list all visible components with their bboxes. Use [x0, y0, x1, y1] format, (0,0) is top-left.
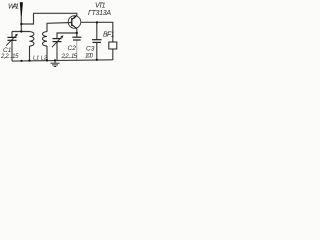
- svg-text:C3: C3: [86, 45, 95, 52]
- svg-text:ГТ313А: ГТ313А: [88, 10, 111, 17]
- svg-text:WA1: WA1: [8, 3, 19, 10]
- svg-text:2,2...15: 2,2...15: [0, 54, 19, 60]
- svg-text:VT1: VT1: [95, 3, 106, 10]
- svg-text:C1: C1: [3, 47, 12, 54]
- svg-text:2,2...15: 2,2...15: [61, 54, 78, 60]
- svg-text:100: 100: [85, 54, 94, 60]
- svg-text:BF1: BF1: [103, 32, 115, 39]
- svg-text:C2: C2: [68, 45, 77, 52]
- svg-text:L1 L2: L1 L2: [33, 55, 48, 61]
